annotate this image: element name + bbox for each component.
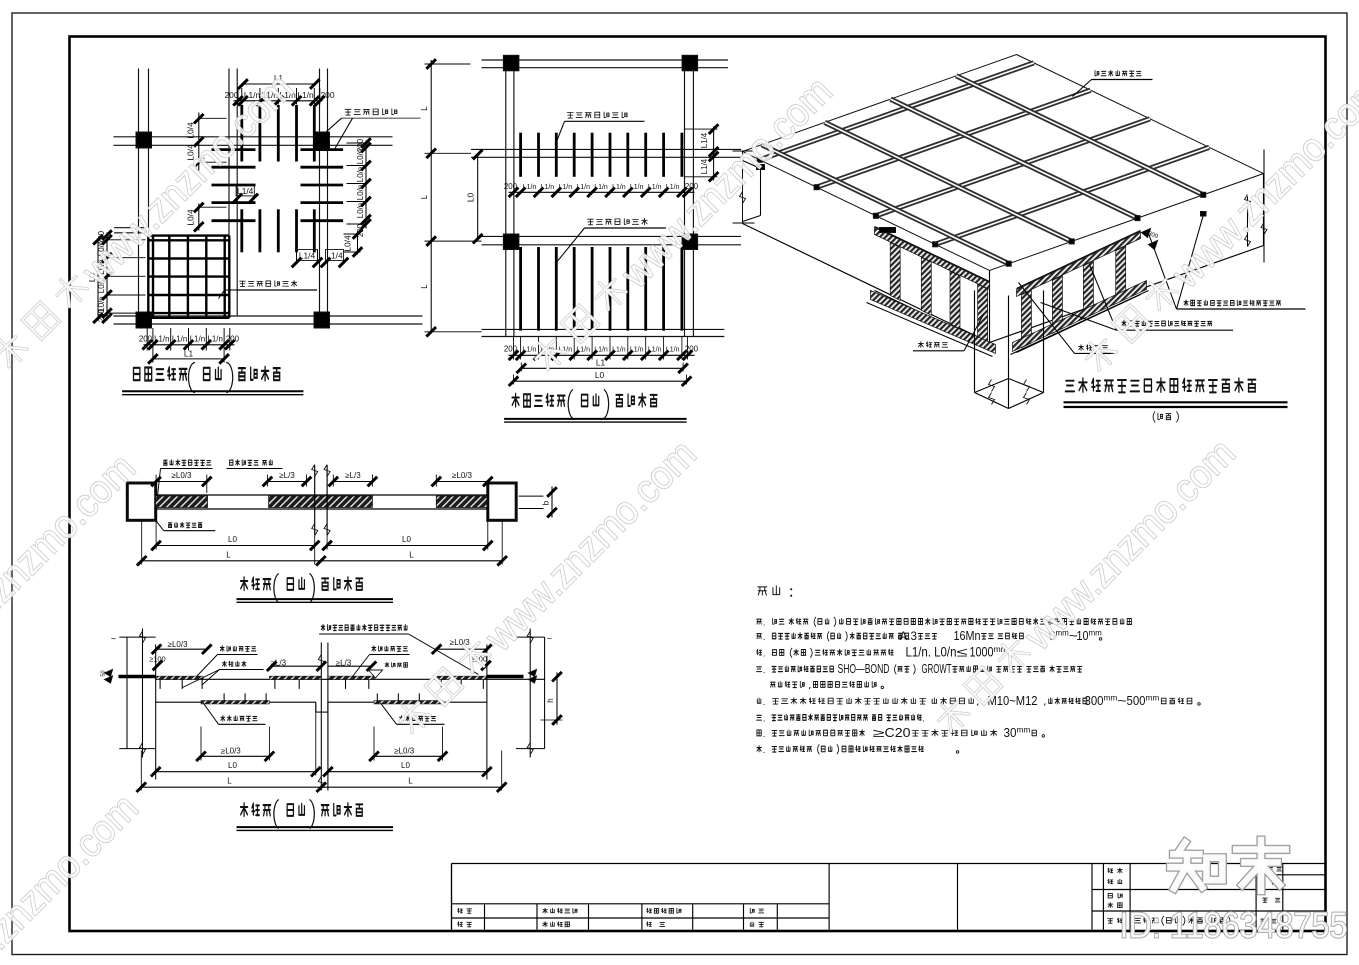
svg-text:L1/n: L1/n [630,184,644,191]
svg-text:≥L/3: ≥L/3 [345,471,361,480]
dwg1 horizontal beam H-mid left stub [114,227,147,229]
dwg5 title [241,803,248,816]
svg-text:.: . [763,745,766,755]
svg-text:ID: 1186348755: ID: 1186348755 [1120,905,1348,946]
svg-text:≥: ≥ [873,726,886,740]
svg-text:≥L/3: ≥L/3 [279,471,295,480]
dwg4 left column jacket [127,483,155,520]
svg-text:16Mn: 16Mn [954,629,981,643]
svg-text:.: . [763,729,766,739]
dwg1 column bottom-left [136,312,152,328]
svg-text:~: ~ [547,634,552,644]
svg-text:L1/n: L1/n [576,184,590,191]
svg-text:≥L0/3: ≥L0/3 [452,471,473,480]
dwg1 L0/4 dim right-bottom [357,232,359,255]
dwg4 dim witness lines [141,521,143,565]
svg-text:500: 500 [1127,693,1146,708]
dwg1 bottom dim 200/L1-n of grid panel [144,344,235,346]
svg-text:L1/n: L1/n [594,184,608,191]
svg-text:L1: L1 [596,357,606,367]
dwg5 labels beam-bottom plate [221,716,225,721]
svg-text:L0/n: L0/n [356,167,365,182]
dwg1 right steel plates (5 horizontal) [301,148,344,151]
dwg2 right vertical beam [684,55,686,336]
svg-text:L0/n: L0/n [356,149,365,164]
dwg2 column bottom-right [682,234,698,250]
dwg1 L1/4 boxed dims bottom-right [297,250,318,261]
svg-text:≥L0/3: ≥L0/3 [394,747,415,756]
svg-text:L0: L0 [402,535,411,544]
note line 6 [757,715,762,720]
svg-text:.: . [763,697,766,707]
title block approval labels row1 [458,908,463,912]
svg-text:L1/n: L1/n [541,184,555,191]
svg-text:.: . [763,665,766,675]
dwg4 plate 3 hatched [436,496,487,508]
note line 5 [757,698,761,703]
title block left section cell dividers [484,904,486,930]
svg-text:SHO—BOND: SHO—BOND [838,662,890,676]
dwg1 bottom steel plates (5 vertical) [240,209,243,252]
note line 4b [770,682,775,687]
dwg4 title [241,577,248,590]
svg-text:L1/4: L1/4 [700,132,709,148]
dwg2 top beam [482,59,729,61]
dwg4 dim L pair [142,560,321,562]
dwg5 bolts below slab [159,680,161,689]
iso column break marks [989,393,995,405]
title block project-name label [1108,868,1113,873]
svg-text:.: . [763,714,766,724]
dwg5 bottom plates hatched [201,701,269,705]
svg-text:L1/n: L1/n [666,184,680,191]
dwg1 top dim L1 [243,83,315,85]
svg-text:200: 200 [504,182,518,191]
svg-text:≥L0/3: ≥L0/3 [221,747,242,756]
svg-text:200: 200 [685,345,699,354]
diagonal watermark instances [0,66,302,379]
dwg2 label plate-on-top [567,112,573,118]
dwg1 right dim column 200/L0-n [365,141,367,229]
svg-text:200: 200 [504,345,518,354]
dwg2 dim L0 bottom [514,380,687,382]
dwg2 slab bottom edge [482,328,725,330]
iso 300 dimension marks [1142,229,1151,238]
title block drawing name content [1135,918,1141,923]
svg-text:L1/n: L1/n [666,347,680,354]
dwg1 column top-right [314,132,330,148]
svg-text:L1/n. L0/n: L1/n. L0/n [906,644,957,660]
iso subtitle (axonometric) [1153,411,1155,422]
dwg1 title [133,368,139,380]
dwg1 top dim 200/L1-n line [234,100,323,102]
iso left beam vertical plates [890,242,900,300]
svg-text:200: 200 [139,335,153,344]
svg-text:L1/n: L1/n [594,347,608,354]
svg-text:L1/n: L1/n [576,347,590,354]
dwg5 top label weld-to-column-plate [321,624,325,630]
svg-text:L1/n: L1/n [558,184,572,191]
iso right beam vertical plates [1021,290,1031,348]
svg-text:≥L0/3: ≥L0/3 [168,640,189,649]
znzmo logo big 知 character [1179,842,1185,851]
iso under-slab left beam with side plates [875,227,990,282]
svg-text:A.3: A.3 [900,631,918,643]
dwg1 left dim column 200/L0-n of grid panel [106,233,108,321]
iso under-slab right beam with side plates [1017,231,1141,289]
svg-text:mm: mm [1146,693,1160,703]
dwg5 mid verticals [320,643,322,791]
note line 2 [757,634,762,639]
dwg4 beam lines [156,494,488,496]
dwg1 vertical beam V1 [138,69,140,314]
svg-text:b: b [542,500,551,505]
svg-text:L1/n: L1/n [208,335,223,344]
svg-text:L: L [409,550,414,559]
svg-text:L1/n: L1/n [612,184,626,191]
dwg4 right column jacket [488,483,516,520]
title block builder label [1108,893,1112,898]
dwg5 right column verticals [486,645,488,780]
svg-text:L1/n: L1/n [523,347,537,354]
dwg1 L0/4 dim lower-left [198,204,200,231]
dwg2 bottom dim 200/L1-n [509,354,695,356]
svg-text:~: ~ [1117,693,1126,708]
svg-text:≤: ≤ [957,645,968,660]
dwg4 right stub and b dim [519,495,544,497]
title block right small labels [1260,867,1264,871]
dwg5 left column verticals with breaks [126,637,128,749]
iso column [974,291,976,393]
dwg5 dim L pair [141,786,321,788]
svg-text:L1/n: L1/n [612,347,626,354]
svg-text:L1/n: L1/n [190,335,205,344]
dwg1 label plate-on-slab-bottom [240,281,246,286]
iso right beam bottom flange plate [1013,281,1147,352]
dwg4 mid break lines [314,465,316,535]
svg-text:.: . [763,618,766,628]
title block drawing-name label [1108,919,1113,924]
iso grid band end tabs [757,157,762,162]
dwg1 two-way grid plate panel bottom-left [147,236,149,318]
dwg1 label plate-on-floor-top [345,109,351,115]
svg-text:50: 50 [101,670,107,676]
svg-text:L1/n: L1/n [154,335,169,344]
svg-text:L0: L0 [401,761,410,770]
dwg1 top witness lines [237,88,239,105]
svg-text:30: 30 [1004,725,1017,740]
iso slab front-right face [990,246,1264,343]
svg-text:≥L0/3: ≥L0/3 [172,471,193,480]
note line 8 [757,746,762,752]
svg-text:L1/n: L1/n [172,335,187,344]
dwg1 column top-left [136,132,152,148]
dwg2 lower plate group (10 vertical plates) [519,247,522,331]
svg-text:L0/4: L0/4 [343,235,353,252]
svg-text:L0: L0 [228,761,237,770]
svg-text:10: 10 [1077,629,1089,643]
svg-text:L: L [420,194,429,199]
svg-text:.: . [763,632,766,642]
note line 4 [757,667,762,672]
note line 7 [757,730,761,736]
title block right section rows [1092,889,1326,891]
dwg4 label weld-to-beam-plate [230,460,233,465]
dwg2 title [512,394,519,407]
dwg4 top dim >=L0/3 left [156,481,207,483]
iso title [1065,381,1074,392]
svg-text:200: 200 [226,335,240,344]
svg-text:L: L [226,550,231,559]
iso left beam top strip plate [875,228,990,290]
svg-text:C20: C20 [885,725,911,740]
svg-text:L0: L0 [595,370,605,380]
dwg1 top steel plates (5 vertical) [240,105,243,162]
dwg5 beam bottom left segment [156,701,316,703]
dwg5 label beam weld symbol [385,662,389,667]
note line 3 [757,649,762,655]
dwg5 label beam-top plate left [220,646,224,651]
svg-text:GROWT: GROWT [922,662,952,676]
svg-text:L: L [227,777,232,786]
iso label beam plate left [918,342,923,348]
dwg2 right L1/4 dims [713,127,715,181]
dwg4 top dim >=L/3 pair [267,481,306,483]
dwg2 dim L0 left [477,155,479,239]
dwg5 top plate hatched segments [157,676,203,679]
dwg4 top dim >=L0/3 right [436,481,488,483]
title block outline [452,863,1326,865]
svg-text:.: . [922,714,925,724]
svg-text:L1/n: L1/n [630,347,644,354]
dwg4 plate 2 hatched [269,496,373,508]
iso slab top face outline [743,55,1264,271]
dwg1 L0 overall dim left [97,240,99,319]
dwg2 left overall dim L column [430,60,432,332]
svg-text:200: 200 [321,90,335,100]
note line 1 [757,619,762,624]
iso left cut marks [733,150,755,152]
dwg2 upper plate group (10 vertical plates) [519,133,522,177]
dwg5 left 50 dim marks [105,670,113,677]
dwg5 mid-span break notch [315,702,317,712]
dwg5 beam-face steel plate over left column (thick) [119,675,156,679]
iso label slab-bottom plate [1095,71,1099,76]
dwg1 L0/4 dims upper-left [198,113,200,171]
dwg1 column bottom-right [314,312,330,328]
dwg2 column top-right [682,55,698,71]
svg-text:L: L [420,106,429,111]
dwg2 label plate-on-bottom [588,219,594,225]
svg-text:.: . [763,649,766,659]
iso label beam-side-top plate weld 1 [1184,300,1188,306]
svg-text:h: h [546,698,555,702]
svg-text:L0/4: L0/4 [186,122,196,139]
svg-text:mm: mm [1017,725,1031,735]
dwg1 horizontal beam H2 bottom [114,315,423,317]
iso right beam top strip plate [1017,232,1141,297]
dwg5 bottom plate bolts [223,693,225,702]
dwg5 slab top line [156,678,545,680]
svg-text:L1/n: L1/n [648,347,662,354]
svg-text:L1/n: L1/n [523,184,537,191]
svg-text:L0/n: L0/n [356,203,365,218]
dwg4 dim L0 pair [156,545,315,547]
svg-text:L1/n: L1/n [648,184,662,191]
dwg5 dim L0 pair [156,771,316,773]
dwg4 plate 1 hatched [156,496,208,508]
title block left section rows [452,903,830,905]
svg-text:≥L0/3: ≥L0/3 [450,638,471,647]
iso label beam plate right [1079,345,1084,351]
iso cut beam end at left edge [760,169,762,216]
dwg5 beam-face steel plate over right column (thick) [487,675,524,679]
svg-text:L0/n: L0/n [356,185,365,200]
iso right extension line with breaks [1263,150,1265,263]
dwg2 mid dim 200/L1-n [509,191,695,193]
svg-text:200: 200 [356,223,365,237]
svg-text:L1: L1 [184,349,194,359]
svg-text:mm: mm [1089,629,1103,638]
dwg1 bottom dim L1 [153,358,224,360]
dwg2 column top-left [503,55,519,71]
iso slab front-left face [742,152,744,224]
dwg2 dim L1 bottom [521,367,683,369]
dwg4 label column jacket plate [168,523,172,528]
dwg5 beam bottom right segment [328,701,487,703]
iso small black plate-end marks on slab edge [880,228,896,233]
svg-text:1000: 1000 [970,644,994,660]
dwg4 label column-anchor-stop-plate [164,460,168,465]
svg-text:L: L [408,777,413,786]
dwg2 bottom beam [482,235,742,237]
iso label beam-side-top plate weld 2 [1122,321,1126,327]
dwg1 left steel plates (5 horizontal) [212,148,256,151]
iso left beam bottom flange plate [871,291,996,354]
svg-text:mm: mm [1104,693,1118,703]
svg-text:L0: L0 [466,193,476,203]
dwg5 label beam-top plate right [372,646,376,651]
dwg1 vertical beam V2 [228,69,230,317]
iso top face grid bands [760,63,1034,160]
svg-text:~: ~ [111,634,116,644]
dwg2 column bottom-left [503,234,519,250]
dwg1 vertical beam V3 [319,69,321,317]
dwg1 L1/4 boxed dim center [236,185,254,196]
znzmo logo big 末 character [1236,842,1286,858]
dwg2 middle beam [471,148,741,150]
title block full-height verticals [828,864,830,930]
dwg1 horizontal beam H1 [114,136,393,138]
svg-text:≥100: ≥100 [149,654,166,663]
svg-text:L0: L0 [228,535,237,544]
title block approval labels row2 [458,922,463,926]
dwg2 left vertical beam [505,55,507,336]
notes heading [758,587,767,595]
svg-text:L: L [420,284,429,289]
svg-text:300: 300 [1085,693,1104,708]
dwg5 label implant bolts [222,661,226,666]
dwg5 h dimension right [556,673,558,725]
